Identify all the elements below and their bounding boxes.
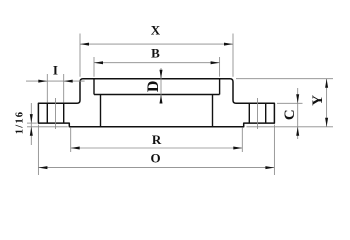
dimension X line — [80, 43, 233, 45]
bolt hole left wall 2 — [63, 103, 65, 123]
dimension C line — [297, 88, 299, 139]
dimension X extension lines — [79, 34, 81, 77]
dimension C extension line top — [277, 102, 303, 104]
dimension D line — [160, 68, 162, 104]
socket bottom ledge — [94, 94, 220, 96]
svg-text:1/16: 1/16 — [15, 111, 26, 134]
svg-text:Y: Y — [310, 95, 326, 106]
dimension O extension lines — [37, 125, 39, 175]
dimension B line — [94, 62, 220, 64]
dimension B extension lines — [93, 57, 95, 77]
dimension O line — [38, 167, 274, 169]
bolt hole left centerline — [55, 98, 57, 129]
svg-text:R: R — [152, 132, 162, 147]
svg-text:O: O — [151, 151, 161, 166]
bolt hole right wall 1 — [248, 103, 250, 123]
dimension R line — [71, 147, 243, 149]
flange body outline — [38, 79, 274, 127]
bore wall right — [212, 95, 214, 127]
dimension I extension lines — [46, 74, 48, 103]
dimension I line — [26, 80, 85, 82]
bolt hole right centerline — [257, 98, 259, 129]
svg-text:I: I — [53, 63, 58, 78]
bore wall left — [100, 95, 102, 127]
svg-text:C: C — [282, 109, 298, 120]
bolt hole right wall 2 — [265, 103, 267, 123]
socket wall left — [93, 79, 95, 95]
bolt hole left wall 1 — [46, 103, 48, 123]
dimension R extension lines — [70, 128, 72, 152]
dimension 1/16 extension lines — [27, 122, 37, 124]
dimension Y extension lines — [236, 78, 333, 80]
socket wall right — [219, 79, 221, 95]
svg-text:X: X — [151, 23, 161, 38]
svg-text:B: B — [151, 46, 160, 61]
svg-text:D: D — [145, 81, 162, 93]
dimension Y line — [326, 79, 328, 127]
dimension 1/16 line — [30, 103, 32, 145]
